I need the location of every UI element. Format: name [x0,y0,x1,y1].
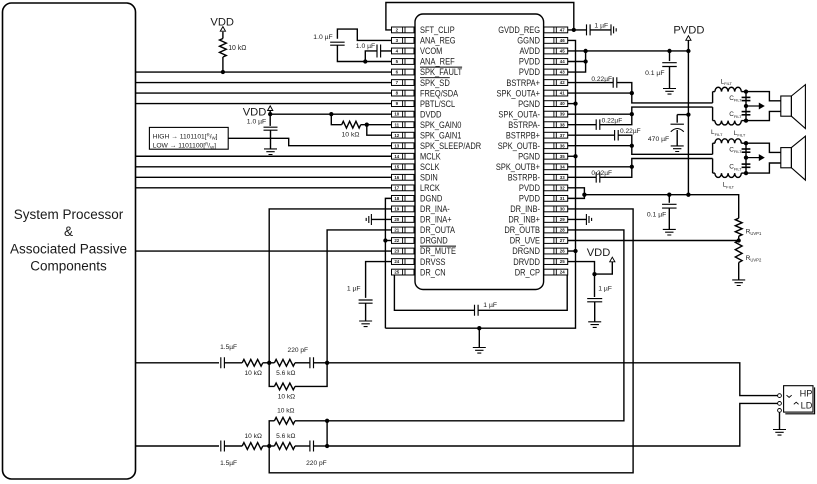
svg-text:10 kΩ: 10 kΩ [278,393,295,400]
svg-text:38: 38 [560,122,565,127]
pin 23 DR_MUTE (left row 22) [392,246,457,256]
junction PVDD lower rail tap [582,193,586,197]
wire cap to ground [365,303,367,321]
junction gain node [365,123,369,127]
wire 0.1uF to ground [669,67,671,89]
capacitor 1 uF (DRVDD) [594,274,596,297]
pin 35 PGND (right row 13) [518,151,568,161]
svg-text:34: 34 [560,164,565,169]
svg-text:PGND: PGND [518,99,540,109]
junction node1 A [267,361,271,365]
svg-text:30: 30 [560,207,565,212]
wire MCLK from processor [136,155,392,157]
svg-text:0.22µF: 0.22µF [591,170,612,177]
pin 2 SFT_CLIP (left row 1) [392,25,455,35]
wire VDD to DVDD pin [270,111,391,115]
svg-text:10 kΩ: 10 kΩ [277,407,294,414]
svg-text:VDD: VDD [243,106,267,118]
wire processor audio input A [136,362,220,364]
wire BSTRPA+ to cap [568,82,614,84]
wire SPK_FAULT from processor [136,71,392,73]
wire DR_MUTE from processor [136,250,392,252]
svg-text:5.6 kΩ: 5.6 kΩ [276,370,295,377]
wire processor audio input B [136,445,220,447]
svg-text:SPK_OUTA-: SPK_OUTA- [498,109,540,119]
pin 5 ANA_REF (left row 4) [392,57,456,67]
svg-text:1 µF: 1 µF [483,302,497,309]
pin 40 PGND (right row 8) [518,99,568,109]
VDD supply symbol (DRVDD) [610,257,615,262]
junction feedback/DR_OUTB node [325,419,329,423]
svg-text:PBTL/SCL: PBTL/SCL [420,99,455,109]
ground (DVDD cap) [264,149,277,155]
pin 11 SPK_GAIN0 (left row 10) [392,120,462,130]
svg-text:1.5µF: 1.5µF [220,460,237,467]
svg-text:43: 43 [560,70,565,75]
ground (GVDD, rotated) [611,24,616,35]
wire node B to speaker - [746,111,781,120]
svg-text:BSTRPA-: BSTRPA- [508,120,540,130]
pin 36 SPK_OUTB- (right row 12) [498,141,568,151]
svg-text:VDD: VDD [587,247,611,259]
ground (R_UVP2) [732,280,745,286]
wire resistor to SPK_FAULT net [222,57,224,72]
wire resistor to cap 220pF A [295,362,310,364]
svg-text:46: 46 [560,38,565,43]
svg-text:BSTRPB+: BSTRPB+ [506,130,540,140]
wire PBTL/SCL from processor [136,103,392,105]
wire AVDD to PVDD rail [568,50,689,52]
svg-text:SPK_SLEEP/ADR: SPK_SLEEP/ADR [420,141,482,151]
pin 9 PBTL/SCL (left row 8) [392,99,456,109]
svg-text:DR_INA-: DR_INA- [420,204,450,214]
pin 32 PVDD (right row 16) [519,183,568,193]
pin 25 DR_CN (left row 24) [392,267,446,277]
svg-text:20: 20 [394,217,399,222]
svg-text:40: 40 [560,101,565,106]
svg-text:36: 36 [560,143,565,148]
wire PVDD riser [687,40,689,194]
svg-text:SPK_OUTB+: SPK_OUTB+ [496,162,540,172]
wire node A to speaker + [746,143,781,152]
wire gain node to SPK_GAIN1 [367,125,392,136]
capacitor 1 uF (GVDD_REG) [587,24,591,35]
wire DR_INA+ to rotated ground [371,218,391,220]
wire SDIN from processor [136,176,392,178]
svg-text:32: 32 [560,185,565,190]
wire BSTRPB+ to cap [568,134,615,136]
svg-text:220 pF: 220 pF [288,347,309,354]
capacitor 0.1 uF (PVDD lower) [668,195,670,203]
svg-text:DR_MUTE: DR_MUTE [420,246,456,256]
pin 3 ANA_REG (left row 2) [392,36,456,46]
junction DRVDD cap node [592,272,596,276]
svg-text:SCLK: SCLK [420,162,439,172]
pin 10 DVDD (left row 9) [392,109,442,119]
pin 25 DRVDD (right row 23) [513,257,567,267]
pin 13 SPK_SLEEP/ADR (left row 12) [392,141,482,151]
junction SPK_OUTB- node [630,144,634,148]
pin 21 DR_OUTA (left row 20) [392,225,456,235]
wire GVDD_REG to capacitor [568,29,587,31]
wire resistor to node1 A [263,362,269,364]
capacitor 1.0 uF (DVDD decoupling) [269,114,271,126]
svg-text:44: 44 [560,59,565,64]
svg-text:39: 39 [560,112,565,117]
svg-text:DRGND: DRGND [512,246,540,256]
jack terminal sleeve [778,409,782,413]
net arrow at mid node [746,105,759,107]
pin 14 MCLK (left row 13) [392,151,441,161]
svg-text:1.0 µF: 1.0 µF [313,34,332,41]
svg-text:25: 25 [394,270,399,275]
speaker [781,148,792,168]
capacitor C_FILT (lower) [742,111,751,113]
capacitor 1 uF (DRVSS) [359,300,373,303]
svg-text:28: 28 [560,228,565,233]
ground (PVDD lower cap) [663,229,676,235]
svg-text:VCOM: VCOM [420,46,442,56]
ground (DR_INA+, rotated) [366,214,371,225]
junction node A [744,141,748,145]
junction PGND lower [573,154,577,158]
svg-text:27: 27 [560,238,565,243]
svg-text:0.22µF: 0.22µF [620,128,641,135]
svg-text:AVDD: AVDD [520,46,541,56]
wire R_UVP1 to DR_UVE node [738,236,740,240]
capacitor C_FILT (upper) [742,97,751,99]
svg-text:SPK_GAIN0: SPK_GAIN0 [420,120,461,130]
wire cap to ground [668,208,670,229]
svg-text:19: 19 [394,207,399,212]
junction 470uF on riser [686,112,690,116]
svg-text:11: 11 [394,122,399,127]
svg-text:DR_INB+: DR_INB+ [508,215,540,225]
wire DR_OUTA to network A output [327,230,391,363]
pin 17 LRCK (left row 16) [392,183,440,193]
junction DRGND left [383,238,387,242]
svg-text:18: 18 [394,196,399,201]
capacitor 470 uF bulk (PVDD) [676,115,678,123]
capacitor 220 pF (B) [310,441,314,452]
wire PVDD pins tie vertical [568,51,586,72]
wire SPK_OUTB+ to filter [568,166,632,168]
svg-text:24: 24 [560,270,565,275]
wire DR_INB- to lower loop [269,209,633,473]
pin 45 AVDD (right row 3) [520,46,568,56]
system processor box [3,3,136,479]
ground (main) [473,348,486,354]
pin 4 VCOM (left row 3) [392,46,443,56]
svg-text:220 pF: 220 pF [306,460,327,467]
svg-text:SPK_OUTB-: SPK_OUTB- [498,141,540,151]
svg-text:10 kΩ: 10 kΩ [244,433,261,440]
inductor L_FILT (upper) [712,92,714,103]
junction node1 B [267,444,271,448]
wire cap to ground [594,302,596,322]
pin 33 BSTRPB- (right row 15) [508,173,568,183]
svg-text:10: 10 [394,112,399,117]
svg-text:47: 47 [560,28,565,33]
resistor 10 k-ohm feedback (A) [269,363,274,387]
capacitor 1 uF (charge pump) [475,305,479,316]
junction DRGND right [573,249,577,253]
svg-text:29: 29 [560,217,565,222]
pin 37 BSTRPB+ (right row 11) [506,130,568,140]
svg-text:SPK_GAIN1: SPK_GAIN1 [420,130,461,140]
wire BSTRPB- to cap [568,176,597,178]
wire PGND upper to vertical [568,103,576,105]
svg-text:DGND: DGND [420,194,443,204]
resistor 10 k-ohm (gain set) [342,121,361,128]
junction SPK_OUTB+ node [630,165,634,169]
svg-text:15: 15 [394,164,399,169]
resistor 10 k-ohm pull-up on SPK_FAULT [220,39,227,57]
pin 41 SPK_OUTA+ (right row 7) [497,88,568,98]
wire VCOM cap down to ANA_REF line [365,51,377,62]
wire BSTRPB- cap to SPK_OUTB+ [600,167,632,178]
junction VDD/DVDD node [268,112,272,116]
wire SPK_OUTB- to filter [568,145,632,147]
junction mid node [744,104,748,108]
junction node B [744,171,748,175]
svg-text:DR_CP: DR_CP [515,267,540,277]
svg-text:12: 12 [394,133,399,138]
wire SCLK from processor [136,166,392,168]
svg-text:PVDD: PVDD [673,25,704,37]
wire 470uF to PVDD riser [677,114,688,116]
ground (jack sleeve) [773,430,786,436]
ground (DRVSS cap) [359,321,372,327]
pin 6 SPK_FAULT (left row 5) [392,67,463,77]
wire PVDD lower rail [584,195,738,219]
wire PVDD pin4 to tie [568,60,586,62]
svg-text:45: 45 [560,49,565,54]
pin 7 SPK_SD (left row 6) [392,78,451,88]
pin 34 SPK_OUTB+ (right row 14) [496,162,568,172]
svg-text:BSTRPA+: BSTRPA+ [506,78,540,88]
capacitor C_FILT (upper) [742,148,751,150]
junction ANA_REF node [363,59,367,63]
wire cap to ground [270,130,272,149]
svg-text:DR_INA+: DR_INA+ [420,215,452,225]
svg-text:&: & [64,224,73,239]
capacitor 1.5 uF (input A) [221,357,225,368]
junction PVDD pin 4 [583,59,587,63]
junction GVDD_REG node [572,28,576,32]
HP/LD jack body [784,386,813,412]
wire PGND lower to vertical [568,155,576,157]
pin 8 FREQ/SDA (left row 7) [392,88,459,98]
capacitor 1.0 uF (ANA_REG) [330,42,345,45]
pin 46 GGND (right row 2) [517,36,567,46]
wire DVDD node down to 10k gain resistor [331,114,341,125]
svg-text:0.22µF: 0.22µF [591,76,612,83]
wire BSTRPA+ cap to SPK_OUTA+ [617,83,632,94]
capacitor 0.22 uF (BSTRPB-) [596,172,600,183]
svg-text:5.6 kΩ: 5.6 kΩ [276,433,295,440]
junction main ground tap [477,326,481,330]
pin 26 DRGND (right row 22) [512,246,567,256]
wire capacitor to side ground [590,29,611,31]
svg-text:42: 42 [560,80,565,85]
wire resistor to cap 220pF B [295,445,310,447]
svg-text:1 µF: 1 µF [598,285,612,292]
pin 20 DR_INA+ (left row 19) [392,215,452,225]
wire SPK_SD from processor [136,82,392,84]
svg-text:DRVDD: DRVDD [513,257,540,267]
wire cap to ANA_REF line [337,45,391,61]
svg-text:HP: HP [800,389,813,399]
inductor L_FILT (lower) [712,159,714,174]
pin 27 DR_UVE (right row 21) [510,236,568,246]
svg-text:SDIN: SDIN [420,173,438,183]
pin 15 SCLK (left row 14) [392,162,440,172]
wire sleeve to ground [779,412,781,429]
svg-text:14: 14 [394,154,399,159]
VDD supply symbol (DVDD) [268,106,273,111]
wire SPK_OUTA+ to filter [568,92,632,94]
op-amp U1 amplifier IC body [415,14,544,290]
wire feedback to node2 A [295,363,327,387]
pin 24 DR_CP (right row 24) [515,267,568,277]
resistor R_UVP2 [735,241,742,263]
junction node2 A [325,361,329,365]
pin 31 PVDD (right row 17) [519,194,568,204]
svg-text:1.0 µF: 1.0 µF [247,118,266,125]
pin 24 DRVSS (left row 23) [392,257,446,267]
resistor 10 k-ohm feedback (B) [269,421,274,446]
resistor 5.6 k-ohm (B) [269,445,274,447]
svg-text:DR_CN: DR_CN [420,267,446,277]
svg-text:SPK_OUTA+: SPK_OUTA+ [497,88,541,98]
wire SPK_OUTA- to filter [568,113,632,115]
svg-text:SFT_CLIP: SFT_CLIP [420,25,455,35]
junction node B [744,118,748,122]
wire filter node column [741,91,746,93]
capacitor 0.22 uF (BSTRPA-) [596,119,600,130]
wire DRVDD to VDD node [568,262,613,275]
resistor 10 k-ohm (input A) [242,359,263,366]
svg-text:DVDD: DVDD [420,109,442,119]
svg-text:16: 16 [394,175,399,180]
wire cap to resistor B [224,445,242,447]
svg-text:1.5µF: 1.5µF [220,344,237,351]
svg-text:DR_INB-: DR_INB- [510,204,540,214]
svg-text:DR_OUTB: DR_OUTB [504,225,540,235]
svg-text:BSTRPB-: BSTRPB- [508,173,540,183]
junction node A [744,89,748,93]
ground (PVDD top cap) [663,89,676,95]
junction PVDD rail / riser [686,49,690,53]
capacitor 0.22 uF (BSTRPA+) [613,77,617,88]
svg-text:22: 22 [394,238,399,243]
pin 18 DGND (left row 17) [392,194,443,204]
capacitor 0.22 uF (BSTRPB+) [615,130,619,141]
junction mid node [744,155,748,159]
pin 30 DR_INB- (right row 18) [510,204,568,214]
ground (470uF) [671,146,684,152]
svg-text:GGND: GGND [517,36,540,46]
svg-text:PVDD: PVDD [519,57,541,67]
pin 38 BSTRPA- (right row 10) [508,120,567,130]
svg-text:23: 23 [394,249,399,254]
svg-text:MCLK: MCLK [420,151,441,161]
ground (DRVDD cap) [588,322,601,328]
svg-text:10 kΩ: 10 kΩ [342,132,360,139]
junction rail at 0.1uF [667,193,671,197]
svg-text:21: 21 [394,228,399,233]
pin 43 PVDD (right row 5) [519,67,568,77]
svg-text:VDD: VDD [210,16,234,28]
svg-text:26: 26 [560,249,565,254]
svg-text:31: 31 [560,196,565,201]
jack terminal LD [778,402,782,406]
svg-text:0.1 µF: 0.1 µF [647,211,666,218]
wire VDD to resistor R pullup [222,32,224,39]
wire ground stem [478,328,480,347]
wire LRCK from processor [136,187,392,189]
wire cap to resistor A [224,362,242,364]
wire node B to speaker - [746,163,781,173]
pin 42 BSTRPA+ (right row 6) [506,78,567,88]
wire BSTRPB+ cap to SPK_OUTB- [618,135,632,146]
svg-text:0.22µF: 0.22µF [602,117,623,124]
wire DRVSS to capacitor [366,262,392,298]
junction SPK_OUTA- node [630,112,634,116]
jack switch contacts [787,395,792,397]
svg-text:0.1 µF: 0.1 µF [645,70,664,77]
svg-text:17: 17 [394,185,399,190]
pin 44 PVDD (right row 4) [519,57,568,67]
wire network B output to jack LD [327,403,777,446]
speaker [781,96,792,116]
wire feedback to node2 B [295,420,327,422]
jack terminal HP [778,394,782,398]
inductor L_FILT (upper) [712,143,714,154]
wire filter node column [741,142,746,144]
pin 39 SPK_OUTA- (right row 9) [498,109,567,119]
svg-text:GVDD_REG: GVDD_REG [498,25,540,35]
PVDD supply symbol [686,36,691,41]
I2C address annotation box [149,127,228,149]
wire cap to DR_CP [478,275,567,310]
svg-text:DRVSS: DRVSS [420,257,446,267]
junction PVDD rail at 0.1uF [667,49,671,53]
junction node2 B [325,444,329,448]
svg-text:DR_OUTA: DR_OUTA [420,225,455,235]
wire resistor to node1 B [263,445,269,447]
svg-text:Components: Components [30,259,107,274]
svg-text:DRGND: DRGND [420,236,448,246]
wire ANA_REG elbow to capacitor C ana [337,29,391,40]
capacitor 0.1 uF (PVDD top) [669,51,671,61]
wire resistor to SPK_GAIN0 [361,124,392,126]
junction PGND upper [573,101,577,105]
svg-text:LRCK: LRCK [420,183,440,193]
wire R_UVP2 to ground [738,263,740,280]
capacitor C_FILT (lower) [742,163,751,165]
svg-text:24: 24 [394,259,399,264]
ground (DR_INB+, rotated) [586,214,591,225]
svg-text:25: 25 [560,259,565,264]
pin 12 SPK_GAIN1 (left row 11) [392,130,462,140]
junction on SPK_FAULT line [221,70,225,74]
wire GGND down to PGND/ground rail [385,40,575,328]
pin 28 DR_OUTB (right row 20) [504,225,567,235]
pin 22 DRGND (left row 21) [392,236,449,246]
wire DGND to ground rail [385,198,391,328]
